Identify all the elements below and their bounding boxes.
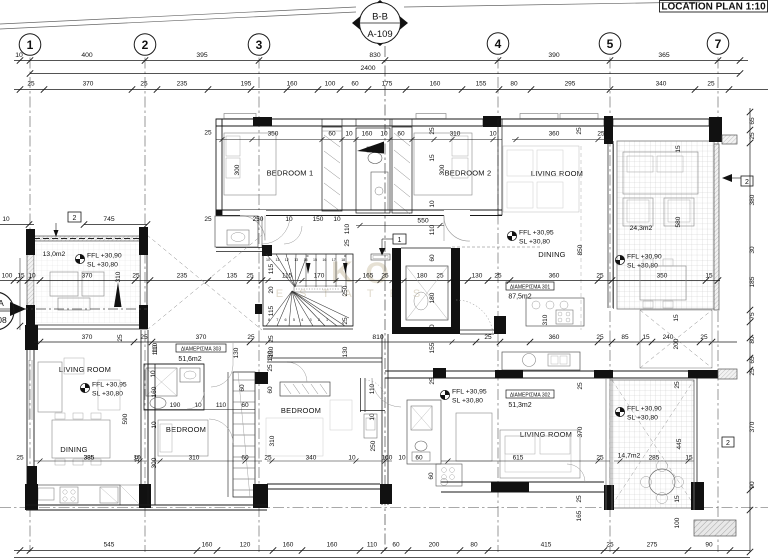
svg-text:10: 10 bbox=[28, 273, 36, 280]
svg-text:285: 285 bbox=[649, 455, 660, 462]
section line B-B vertical bbox=[384, 46, 386, 552]
svg-text:60: 60 bbox=[392, 542, 400, 549]
right dimension chain bbox=[749, 108, 751, 552]
svg-text:A-109: A-109 bbox=[367, 29, 392, 40]
svg-text:ESTATES: ESTATES bbox=[276, 288, 437, 300]
svg-text:60: 60 bbox=[267, 386, 274, 394]
svg-text:25: 25 bbox=[494, 273, 502, 280]
svg-text:DINING: DINING bbox=[538, 250, 565, 259]
svg-text:65: 65 bbox=[749, 117, 756, 125]
svg-text:400: 400 bbox=[81, 52, 93, 59]
svg-text:25: 25 bbox=[707, 81, 715, 88]
svg-text:15: 15 bbox=[674, 495, 681, 503]
svg-text:60: 60 bbox=[429, 254, 436, 262]
svg-text:10: 10 bbox=[380, 131, 388, 138]
svg-text:190: 190 bbox=[170, 402, 181, 409]
bedroom1 wardrobe bbox=[322, 127, 342, 211]
svg-text:110: 110 bbox=[369, 383, 376, 394]
level marker 302 terrace bbox=[615, 407, 624, 416]
dimension 2400 bbox=[30, 73, 740, 75]
wc sink cabinet bbox=[364, 414, 377, 438]
svg-text:24,3m2: 24,3m2 bbox=[630, 225, 653, 232]
door arc bath303 bbox=[187, 392, 204, 409]
section arrow on B-B bbox=[357, 142, 384, 154]
column bath302 bbox=[433, 368, 446, 378]
svg-text:310: 310 bbox=[115, 271, 122, 282]
elevator shaft bbox=[392, 248, 401, 334]
hatch strip bottom right bbox=[694, 520, 736, 536]
svg-text:2: 2 bbox=[745, 179, 749, 186]
svg-text:25: 25 bbox=[749, 132, 756, 140]
stairwell bbox=[263, 254, 353, 326]
svg-text:25: 25 bbox=[204, 130, 212, 137]
label apartment 303 bbox=[176, 344, 226, 352]
toilet 303 bbox=[150, 398, 166, 409]
column divider bottom bbox=[139, 484, 151, 508]
svg-text:130: 130 bbox=[267, 350, 274, 361]
door arc wc dotted bbox=[365, 380, 385, 400]
svg-text:1: 1 bbox=[27, 38, 34, 52]
svg-text:160: 160 bbox=[151, 386, 158, 397]
svg-text:13: 13 bbox=[294, 258, 298, 262]
svg-text:615: 615 bbox=[513, 455, 524, 462]
svg-text:350: 350 bbox=[657, 273, 668, 280]
svg-text:15: 15 bbox=[673, 314, 680, 322]
column 302 A bbox=[495, 370, 523, 378]
wardrobe 340 bbox=[280, 382, 330, 396]
svg-text:25: 25 bbox=[700, 334, 708, 341]
column kitchen301 col4 bbox=[494, 316, 506, 334]
apartment 302 left wall bbox=[381, 334, 383, 505]
svg-text:10: 10 bbox=[345, 131, 353, 138]
svg-text:545: 545 bbox=[104, 542, 115, 549]
svg-text:13,0m2: 13,0m2 bbox=[43, 251, 66, 258]
svg-text:310: 310 bbox=[450, 131, 461, 138]
svg-text:340: 340 bbox=[306, 455, 317, 462]
svg-text:250: 250 bbox=[253, 216, 264, 223]
svg-text:100: 100 bbox=[325, 81, 336, 88]
svg-text:51,3m2: 51,3m2 bbox=[508, 402, 531, 409]
svg-text:115: 115 bbox=[268, 263, 275, 274]
column left D bbox=[27, 466, 37, 484]
svg-text:SL +30,80: SL +30,80 bbox=[519, 239, 550, 246]
left dimension line vertical bbox=[19, 258, 21, 330]
svg-text:160: 160 bbox=[202, 542, 213, 549]
svg-text:175: 175 bbox=[382, 81, 393, 88]
svg-text:155: 155 bbox=[476, 81, 487, 88]
svg-text:60: 60 bbox=[239, 384, 246, 392]
svg-text:10: 10 bbox=[348, 455, 356, 462]
svg-text:90: 90 bbox=[749, 481, 756, 489]
svg-text:SL +30,80: SL +30,80 bbox=[87, 262, 118, 269]
svg-text:310: 310 bbox=[269, 435, 276, 446]
svg-text:155: 155 bbox=[429, 342, 436, 353]
svg-text:25: 25 bbox=[597, 131, 605, 138]
svg-text:10: 10 bbox=[398, 455, 406, 462]
column corridor bbox=[262, 245, 272, 256]
svg-text:550: 550 bbox=[417, 218, 429, 225]
svg-text:25: 25 bbox=[264, 455, 272, 462]
svg-text:110: 110 bbox=[429, 224, 436, 235]
sink 303 bbox=[180, 368, 200, 382]
bedroom2 right wall bbox=[498, 119, 502, 215]
bed 303 bbox=[158, 420, 208, 456]
svg-text:100: 100 bbox=[674, 517, 681, 528]
svg-text:15: 15 bbox=[313, 258, 317, 262]
svg-text:370: 370 bbox=[82, 273, 93, 280]
svg-text:10: 10 bbox=[429, 324, 436, 332]
svg-text:SL +30,80: SL +30,80 bbox=[452, 398, 483, 405]
svg-text:185: 185 bbox=[749, 276, 756, 287]
svg-text:180: 180 bbox=[417, 273, 428, 280]
toilet 302 bbox=[415, 441, 427, 451]
terrace 14,7 table bbox=[649, 469, 675, 495]
bedroom1 left wall bbox=[216, 119, 222, 215]
svg-text:370: 370 bbox=[577, 426, 584, 437]
svg-text:75: 75 bbox=[749, 312, 756, 320]
lower stair strip bbox=[233, 372, 255, 497]
svg-text:160: 160 bbox=[287, 81, 298, 88]
svg-text:200: 200 bbox=[429, 542, 440, 549]
svg-text:30: 30 bbox=[749, 246, 756, 254]
svg-text:25: 25 bbox=[132, 273, 140, 280]
stair arrows bbox=[306, 263, 311, 274]
svg-text:60: 60 bbox=[241, 402, 249, 409]
bottom wall left bbox=[26, 504, 267, 506]
svg-text:25: 25 bbox=[596, 273, 604, 280]
svg-text:275: 275 bbox=[647, 542, 658, 549]
svg-text:2: 2 bbox=[726, 440, 730, 447]
column bottom 302 bbox=[491, 482, 529, 492]
svg-text:385: 385 bbox=[84, 455, 95, 462]
kitchen island 301 bbox=[526, 298, 584, 326]
svg-text:FFL +30,95: FFL +30,95 bbox=[519, 230, 554, 237]
svg-text:110: 110 bbox=[216, 402, 227, 409]
divider wall 303 bbox=[140, 330, 142, 505]
column strip top bbox=[255, 372, 268, 384]
stairwell left wall column bbox=[255, 304, 262, 314]
svg-text:10: 10 bbox=[194, 402, 202, 409]
right wall 302 bbox=[696, 378, 698, 482]
svg-text:370: 370 bbox=[82, 334, 93, 341]
terrace sofa set bbox=[623, 152, 698, 194]
svg-text:10: 10 bbox=[285, 216, 293, 223]
column 302 C bbox=[688, 370, 718, 378]
svg-text:80: 80 bbox=[510, 81, 518, 88]
window left wall bbox=[28, 360, 30, 420]
column strip bottom bbox=[253, 484, 268, 508]
svg-text:20: 20 bbox=[268, 286, 275, 294]
svg-text:25: 25 bbox=[381, 273, 389, 280]
window sills top bbox=[224, 114, 256, 119]
terrace 24,3m2 right wall hatch bbox=[714, 144, 719, 310]
door arc bedroom303 bbox=[211, 365, 233, 387]
level marker balcony bbox=[75, 254, 84, 263]
corridor wall to col4 bbox=[460, 329, 494, 331]
svg-text:360: 360 bbox=[549, 273, 560, 280]
svg-text:BEDROOM 1: BEDROOM 1 bbox=[267, 169, 314, 178]
svg-text:170: 170 bbox=[314, 273, 325, 280]
kitchen 302 bbox=[436, 464, 462, 486]
svg-text:LIVING ROOM: LIVING ROOM bbox=[520, 430, 572, 439]
grid bubbles 1 2 3 4 5 7 bbox=[19, 34, 41, 56]
svg-text:5: 5 bbox=[293, 318, 295, 322]
svg-text:25: 25 bbox=[429, 127, 436, 135]
svg-text:14: 14 bbox=[304, 258, 308, 262]
balcony furniture bbox=[50, 272, 78, 296]
dimension row level2 bbox=[14, 89, 768, 91]
wc 340 walls bbox=[360, 378, 362, 412]
svg-text:360: 360 bbox=[549, 334, 560, 341]
sofa 302 bbox=[456, 413, 492, 461]
dimension row B bbox=[262, 341, 460, 343]
svg-text:1: 1 bbox=[326, 318, 328, 322]
svg-text:80: 80 bbox=[749, 336, 756, 344]
svg-text:10: 10 bbox=[15, 52, 23, 59]
column 302 B bbox=[594, 370, 613, 378]
svg-text:250: 250 bbox=[342, 285, 349, 296]
svg-text:15: 15 bbox=[642, 334, 650, 341]
svg-text:380: 380 bbox=[749, 194, 756, 205]
svg-text:340: 340 bbox=[656, 81, 667, 88]
svg-text:370: 370 bbox=[749, 421, 756, 432]
label apartment 301 bbox=[506, 282, 554, 290]
void cross below terrace bbox=[640, 310, 712, 368]
svg-text:390: 390 bbox=[548, 52, 560, 59]
svg-text:60: 60 bbox=[351, 81, 359, 88]
svg-text:ΔIAMEPIΣMA 301: ΔIAMEPIΣMA 301 bbox=[510, 285, 551, 291]
column left B bbox=[26, 305, 35, 329]
door arc bedroom2 bbox=[444, 210, 470, 216]
svg-text:16: 16 bbox=[322, 258, 326, 262]
bathroom1 toilet bbox=[368, 153, 382, 164]
shower 303 bbox=[146, 368, 177, 396]
svg-text:235: 235 bbox=[177, 273, 188, 280]
svg-text:150: 150 bbox=[313, 216, 324, 223]
marker 2 leader bbox=[55, 223, 57, 231]
svg-text:8: 8 bbox=[268, 318, 270, 322]
balcony parapet dashed bbox=[34, 238, 147, 240]
svg-text:25: 25 bbox=[576, 495, 583, 503]
svg-text:60: 60 bbox=[328, 131, 336, 138]
living 302 bottom wall bbox=[441, 481, 604, 483]
svg-text:25: 25 bbox=[596, 334, 604, 341]
svg-text:3: 3 bbox=[256, 38, 263, 52]
svg-text:FFL +30,90: FFL +30,90 bbox=[627, 254, 662, 261]
svg-text:08: 08 bbox=[0, 315, 7, 325]
svg-text:FFL +30,90: FFL +30,90 bbox=[87, 253, 122, 260]
location plan title bbox=[660, 1, 768, 13]
detail marker 1 bbox=[393, 234, 406, 244]
svg-text:10: 10 bbox=[150, 370, 157, 378]
column left C bbox=[25, 325, 38, 350]
svg-text:10: 10 bbox=[2, 216, 10, 223]
column left A bbox=[26, 229, 35, 255]
bathroom1 shower bbox=[371, 172, 388, 210]
svg-text:60: 60 bbox=[397, 131, 405, 138]
svg-text:10: 10 bbox=[134, 455, 141, 463]
bathroom 303 walls bbox=[144, 364, 204, 410]
stair landing dotted bbox=[294, 286, 342, 292]
svg-text:130: 130 bbox=[233, 347, 240, 358]
svg-text:130: 130 bbox=[342, 346, 349, 357]
svg-text:60: 60 bbox=[415, 455, 423, 462]
balcony divider hatch top right bbox=[722, 135, 737, 144]
svg-text:SL +30,80: SL +30,80 bbox=[627, 415, 658, 422]
svg-text:350: 350 bbox=[268, 131, 279, 138]
svg-text:25: 25 bbox=[140, 334, 148, 341]
svg-text:4: 4 bbox=[495, 37, 502, 51]
living301 dining wall bbox=[607, 144, 609, 308]
svg-text:160: 160 bbox=[283, 542, 294, 549]
svg-text:200: 200 bbox=[673, 338, 680, 349]
svg-text:17: 17 bbox=[332, 258, 336, 262]
svg-text:14,7m2: 14,7m2 bbox=[618, 453, 641, 460]
dining table 303 bbox=[52, 420, 110, 458]
bath301b walls bbox=[215, 216, 258, 247]
elevator car bbox=[406, 266, 448, 320]
svg-text:25: 25 bbox=[16, 455, 24, 462]
svg-text:830: 830 bbox=[369, 52, 381, 59]
bedroom 303 left wall bbox=[147, 364, 149, 505]
column top wall A bbox=[253, 117, 272, 126]
label apartment 302 bbox=[506, 390, 554, 398]
apartment 302 top wall bbox=[385, 370, 737, 372]
column top wall D col7 bbox=[709, 117, 722, 142]
living302 rug bbox=[505, 436, 571, 472]
svg-text:25: 25 bbox=[117, 334, 124, 342]
svg-text:87,5m2: 87,5m2 bbox=[508, 294, 531, 301]
bath 302 bbox=[407, 400, 441, 464]
svg-text:LIVING ROOM: LIVING ROOM bbox=[59, 365, 111, 374]
balcony 13,0m2 walls bbox=[27, 236, 34, 328]
svg-text:B-B: B-B bbox=[372, 12, 388, 23]
svg-text:10: 10 bbox=[429, 200, 436, 208]
column balcony right A bbox=[139, 227, 148, 255]
svg-text:FFL +30,95: FFL +30,95 bbox=[92, 382, 127, 389]
svg-text:745: 745 bbox=[103, 216, 115, 223]
sofa 303 bbox=[38, 362, 62, 412]
svg-text:100: 100 bbox=[2, 273, 13, 280]
door arc bedroom340 bbox=[287, 362, 307, 382]
svg-text:120: 120 bbox=[240, 542, 251, 549]
svg-text:25: 25 bbox=[749, 368, 756, 376]
living301 divider dashed bbox=[580, 146, 582, 330]
svg-text:18: 18 bbox=[341, 258, 345, 262]
svg-text:25: 25 bbox=[429, 377, 436, 385]
bath 303 dims bbox=[144, 409, 255, 411]
stair treads upper fan bbox=[266, 254, 295, 287]
svg-text:115: 115 bbox=[268, 305, 275, 316]
svg-text:295: 295 bbox=[565, 81, 576, 88]
svg-text:25: 25 bbox=[596, 455, 604, 462]
door arc bath301b bbox=[284, 226, 302, 244]
svg-text:FFL +30,90: FFL +30,90 bbox=[627, 406, 662, 413]
dimension row C bbox=[34, 460, 147, 462]
level marker terrace bbox=[615, 255, 624, 264]
bedroom 340 walls bbox=[267, 483, 380, 485]
section marker B-B A-109 bbox=[352, 0, 408, 46]
svg-text:85: 85 bbox=[621, 334, 629, 341]
svg-text:25: 25 bbox=[267, 364, 274, 372]
svg-text:110: 110 bbox=[152, 342, 159, 353]
svg-text:1: 1 bbox=[398, 237, 402, 244]
svg-text:590: 590 bbox=[122, 413, 129, 424]
svg-text:51,6m2: 51,6m2 bbox=[178, 356, 201, 363]
svg-text:65: 65 bbox=[749, 356, 756, 364]
svg-text:130: 130 bbox=[472, 273, 483, 280]
bedroom1 bed bbox=[224, 133, 276, 195]
terrace 14,7 cross dashed bbox=[612, 380, 694, 505]
svg-text:15: 15 bbox=[705, 273, 713, 280]
svg-text:10: 10 bbox=[151, 421, 158, 429]
svg-text:10: 10 bbox=[266, 258, 270, 262]
svg-text:415: 415 bbox=[541, 542, 552, 549]
bath301b sink bbox=[227, 230, 249, 245]
dimension line row F bbox=[216, 139, 502, 141]
svg-text:LOCATION PLAN 1:10: LOCATION PLAN 1:10 bbox=[661, 2, 766, 13]
shower 302 bbox=[411, 406, 432, 430]
svg-text:2: 2 bbox=[318, 318, 320, 322]
svg-text:25: 25 bbox=[674, 381, 681, 389]
svg-text:300: 300 bbox=[439, 164, 446, 175]
door arc bedroom1 bbox=[240, 210, 266, 216]
door arc 302 entry bbox=[372, 378, 401, 407]
svg-text:4: 4 bbox=[301, 318, 303, 322]
svg-text:10: 10 bbox=[333, 216, 341, 223]
dimension row middle bbox=[0, 280, 262, 282]
svg-text:2: 2 bbox=[73, 215, 77, 222]
balcony level arrow bbox=[114, 282, 122, 307]
bed 340 bbox=[266, 418, 323, 456]
svg-text:180: 180 bbox=[429, 292, 436, 303]
grid axes vertical bbox=[29, 58, 31, 553]
door arc corridor bbox=[262, 216, 290, 244]
bedroom2 bed bbox=[414, 133, 472, 195]
svg-text:300: 300 bbox=[151, 457, 158, 468]
svg-text:160: 160 bbox=[430, 81, 441, 88]
svg-text:12: 12 bbox=[285, 258, 289, 262]
svg-text:110: 110 bbox=[367, 542, 378, 549]
svg-text:370: 370 bbox=[83, 81, 94, 88]
ceiling break dashed bbox=[452, 246, 540, 248]
svg-text:7: 7 bbox=[715, 37, 722, 51]
bottom dimension rows bbox=[14, 550, 750, 552]
svg-text:850: 850 bbox=[577, 244, 584, 255]
column top wall C col5 bbox=[604, 116, 613, 144]
svg-text:365: 365 bbox=[658, 52, 670, 59]
svg-text:BEDROOM: BEDROOM bbox=[281, 406, 321, 415]
svg-text:580: 580 bbox=[675, 216, 682, 227]
detail marker 2 bottom bbox=[722, 437, 734, 447]
svg-text:15: 15 bbox=[675, 145, 682, 153]
terrace dining table bbox=[640, 266, 686, 300]
svg-text:25: 25 bbox=[27, 81, 35, 88]
svg-text:7: 7 bbox=[276, 318, 278, 322]
door arc terrace 302 bbox=[567, 464, 585, 482]
svg-text:ΔIAMEPIΣMA 302: ΔIAMEPIΣMA 302 bbox=[510, 393, 551, 399]
svg-text:25: 25 bbox=[484, 334, 492, 341]
svg-text:160: 160 bbox=[382, 455, 393, 462]
door swing dotted corridor bbox=[456, 300, 493, 335]
svg-text:15: 15 bbox=[429, 154, 436, 162]
section marker A left bbox=[0, 308, 147, 310]
horizontal axis line bbox=[0, 507, 768, 509]
svg-text:25: 25 bbox=[204, 216, 212, 223]
svg-text:80: 80 bbox=[470, 542, 478, 549]
terrace 24,3m2 floor bbox=[617, 141, 714, 309]
sofa living301 bbox=[503, 146, 579, 212]
